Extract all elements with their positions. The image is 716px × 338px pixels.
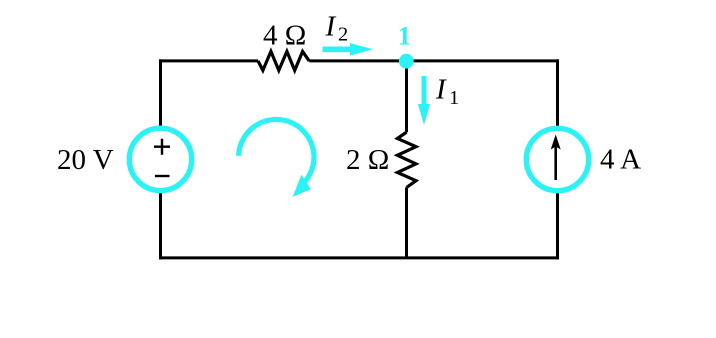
- voltage source V1 20V circle: [129, 128, 191, 190]
- wire left-lower: [159, 193, 162, 259]
- node 1 dot: [399, 54, 414, 69]
- wire middle-upper: [405, 59, 408, 132]
- 4A arrow shaft: [554, 146, 557, 180]
- wire top-left segment: [159, 59, 258, 62]
- resistor R 2ohm: [397, 132, 416, 187]
- current source I 4A circle: [526, 128, 588, 190]
- svg-text:I: I: [435, 74, 447, 106]
- wire right-upper: [556, 59, 559, 126]
- wire bottom: [159, 256, 559, 259]
- svg-text:20 V: 20 V: [57, 144, 114, 176]
- current arrow I1: [418, 76, 430, 125]
- resistor R 4ohm: [258, 51, 309, 70]
- 4A arrow head: [551, 135, 561, 150]
- svg-text:4 Ω: 4 Ω: [263, 20, 306, 52]
- svg-text:2 Ω: 2 Ω: [346, 144, 389, 176]
- current arrow I2: [323, 43, 373, 56]
- svg-text:1: 1: [449, 87, 459, 109]
- svg-text:I: I: [325, 11, 337, 43]
- V1 plus sign: [154, 139, 170, 155]
- wire left-upper: [159, 59, 162, 126]
- svg-text:2: 2: [338, 24, 348, 46]
- wire right-lower: [556, 193, 559, 259]
- wire middle-lower: [405, 188, 408, 258]
- svg-text:4 A: 4 A: [600, 144, 641, 176]
- V1 minus sign: [155, 175, 170, 177]
- wire top-right segment: [309, 59, 559, 62]
- mesh loop arrow: [239, 119, 314, 184]
- svg-text:1: 1: [398, 22, 411, 51]
- mesh loop arrowhead: [293, 175, 311, 197]
